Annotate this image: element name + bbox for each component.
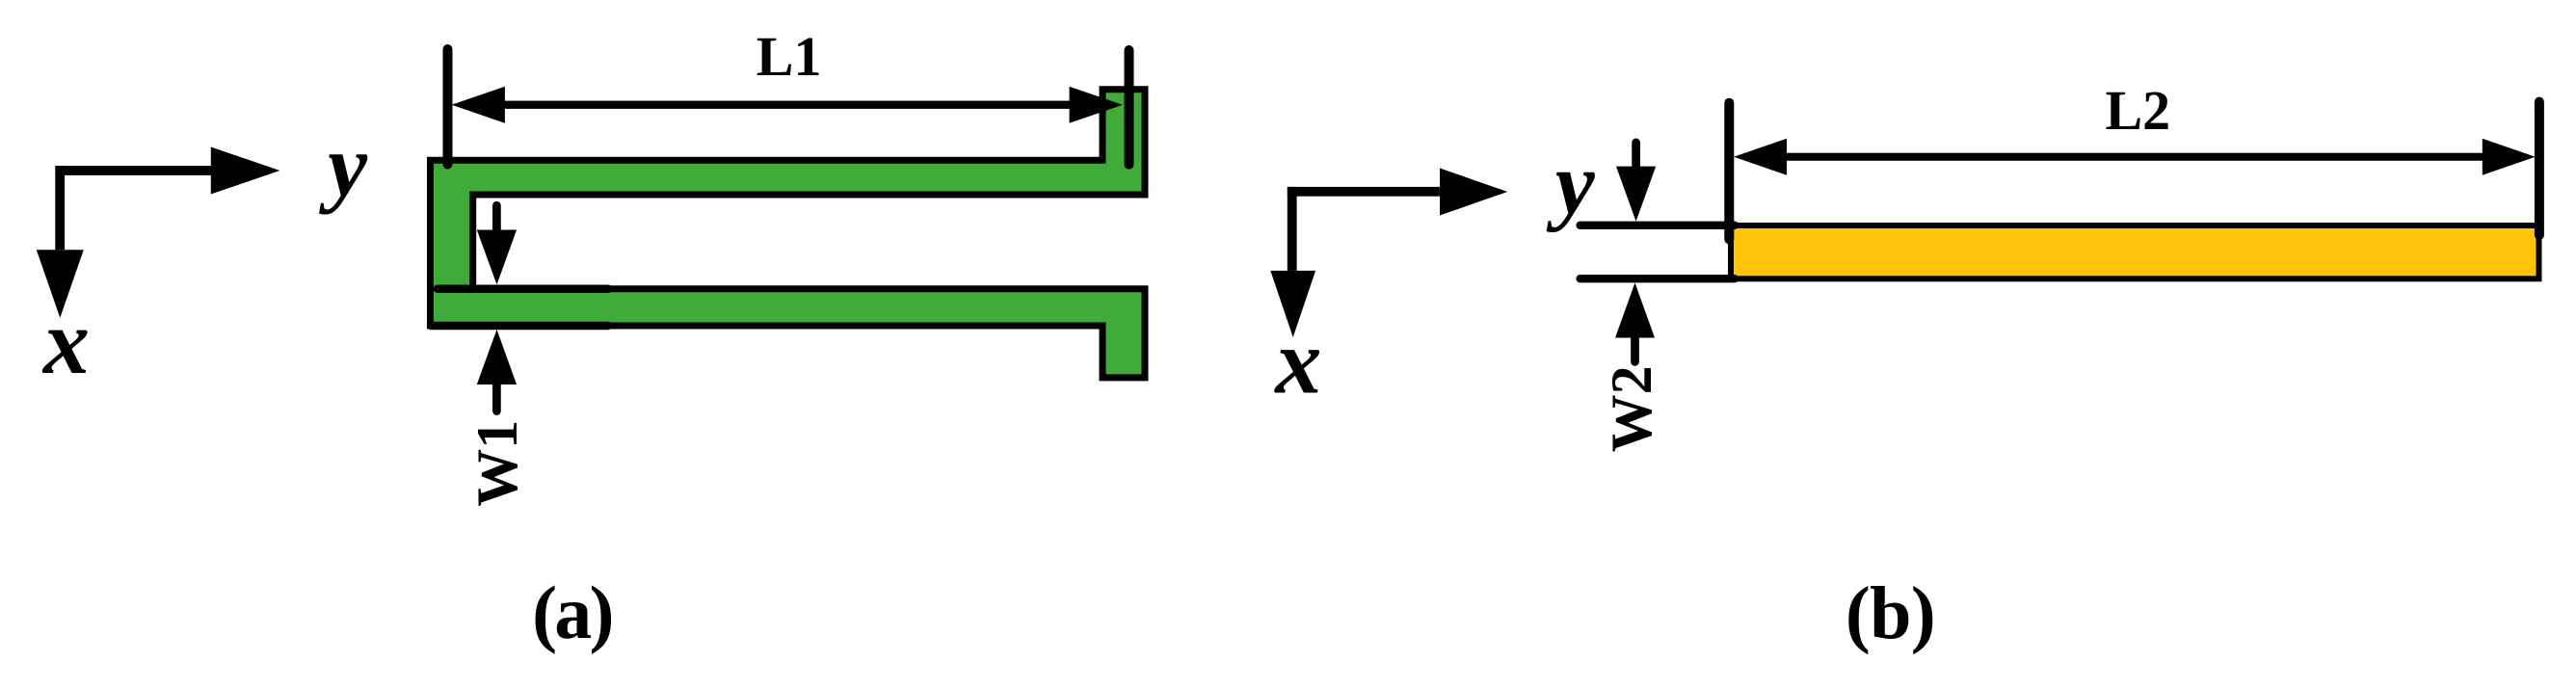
svg-text:L2: L2 bbox=[2106, 79, 2171, 142]
L1 extension line right bbox=[1125, 50, 1134, 165]
witness line top of lower green arm bbox=[438, 284, 608, 293]
witness line top of yellow strip bbox=[1580, 222, 1735, 229]
svg-text:(b): (b) bbox=[1846, 571, 1935, 655]
svg-text:x: x bbox=[1273, 310, 1321, 413]
L2 dimension arrow bbox=[1734, 139, 2536, 175]
witness line bottom of lower green arm bbox=[431, 322, 608, 331]
L1 dimension arrow bbox=[452, 87, 1123, 123]
witness line bottom of yellow strip bbox=[1580, 275, 1735, 282]
L2 extension line right bbox=[2535, 102, 2544, 235]
W2 arrow up bbox=[1615, 283, 1655, 362]
svg-text:L1: L1 bbox=[757, 25, 822, 88]
green meander strip (a) bbox=[431, 90, 1146, 378]
L1 extension line left bbox=[443, 49, 453, 165]
axis y arrow (b) bbox=[1288, 169, 1507, 216]
axis y arrow (a) bbox=[55, 147, 279, 195]
svg-text:x: x bbox=[41, 290, 90, 393]
W1 arrow down bbox=[477, 205, 517, 284]
L2 extension line left bbox=[1724, 103, 1734, 240]
svg-text:W2: W2 bbox=[1600, 365, 1663, 452]
yellow strip (b) bbox=[1731, 225, 2539, 278]
W2 arrow down bbox=[1616, 143, 1656, 222]
svg-text:W1: W1 bbox=[465, 420, 529, 507]
axis x arrow (b) bbox=[1270, 187, 1315, 337]
axis x arrow (a) bbox=[37, 166, 84, 318]
svg-text:(a): (a) bbox=[532, 570, 612, 654]
W1 arrow up bbox=[477, 330, 517, 411]
